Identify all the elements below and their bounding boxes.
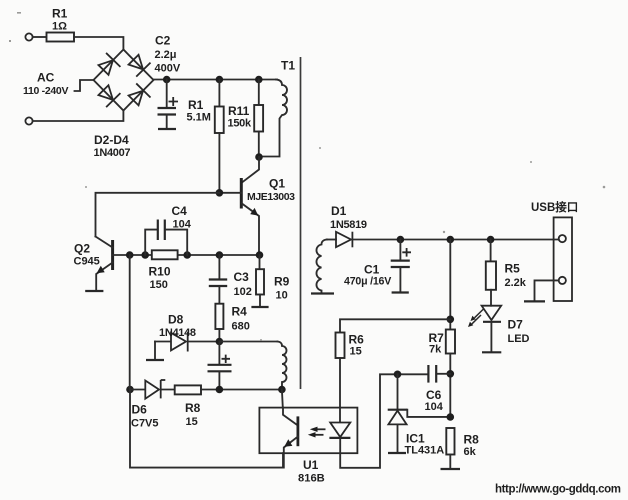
svg-text:LED: LED (508, 333, 530, 345)
wire (33, 36, 47, 38)
diode D6 C7V5 zener (130, 380, 175, 430)
terminal input top (25, 33, 32, 40)
svg-text:Q1: Q1 (269, 177, 285, 191)
node (216, 251, 224, 259)
svg-text:R9: R9 (274, 275, 290, 289)
svg-text:R1: R1 (188, 98, 204, 112)
capacitor C3 102 (209, 255, 252, 304)
svg-text:C3: C3 (234, 270, 250, 284)
svg-text:R6: R6 (349, 333, 365, 347)
svg-text:D8: D8 (168, 313, 184, 327)
svg-text:http://www.go-gddq.com: http://www.go-gddq.com (495, 484, 621, 496)
node (255, 76, 263, 84)
node (141, 251, 149, 259)
wire output rail (352, 239, 558, 241)
svg-text:104: 104 (173, 219, 192, 231)
capacitor C5 electrolytic (208, 342, 232, 390)
capacitor C2 2.2u 400V (155, 34, 181, 130)
transformer T1 secondary winding (316, 240, 327, 293)
svg-text:1N4148: 1N4148 (159, 327, 196, 339)
svg-text:104: 104 (425, 401, 444, 413)
node (216, 76, 224, 84)
node (278, 386, 286, 394)
svg-text:1N5819: 1N5819 (330, 219, 367, 231)
ground secondary winding (311, 292, 334, 294)
svg-text:D1: D1 (331, 204, 347, 218)
optocoupler internal LED (329, 374, 396, 468)
svg-text:USB接口: USB接口 (531, 200, 578, 214)
wire top rail primary (154, 79, 278, 81)
diode D1 1N5819 (327, 204, 367, 247)
svg-text:15: 15 (350, 346, 362, 358)
node (163, 76, 171, 84)
svg-text:2.2μ: 2.2μ (155, 49, 177, 61)
node (216, 338, 224, 346)
wire D6 row to winding node (219, 389, 282, 391)
node AC left stub (23, 71, 94, 98)
svg-text:R5: R5 (505, 262, 521, 276)
resistor R1 5.1M (187, 80, 224, 193)
svg-text:C6: C6 (426, 388, 442, 402)
transformer T1 feedback winding (278, 342, 287, 390)
node (394, 371, 402, 379)
svg-text:C1: C1 (364, 263, 380, 277)
svg-text:Q2: Q2 (74, 242, 90, 256)
transistor Q2 C945 (74, 237, 113, 291)
node (447, 413, 455, 421)
svg-text:R8: R8 (185, 401, 201, 415)
svg-text:R10: R10 (149, 265, 171, 279)
svg-text:1N4007: 1N4007 (94, 147, 131, 159)
ground USB (524, 300, 545, 302)
node (216, 386, 224, 394)
resistor R4 680 (215, 304, 249, 342)
ground D8 (146, 359, 164, 361)
wire row base Q2 (113, 254, 260, 256)
svg-text:400V: 400V (155, 63, 181, 75)
resistor R8 6k (441, 428, 480, 469)
svg-text:2.2k: 2.2k (505, 277, 527, 289)
svg-text:680: 680 (232, 321, 250, 333)
resistor R11 150k (228, 80, 264, 158)
svg-text:C945: C945 (74, 256, 100, 268)
node (216, 189, 224, 197)
diode D8 1N4148 (155, 313, 219, 360)
resistor R5 2.2k (486, 240, 527, 306)
svg-text:C4: C4 (172, 204, 188, 218)
svg-text:D6: D6 (132, 403, 148, 417)
svg-text:10: 10 (276, 290, 288, 302)
resistor R6 15 (336, 319, 451, 407)
svg-text:D2-D4: D2-D4 (94, 133, 129, 147)
svg-text:7k: 7k (429, 344, 442, 356)
transformer T1 primary winding (259, 59, 295, 157)
svg-text:TL431A: TL431A (405, 445, 445, 457)
terminal input bottom (25, 117, 32, 124)
wire (33, 111, 124, 121)
svg-text:R1: R1 (52, 7, 68, 21)
transistor Q1 MJE13003 (241, 157, 295, 255)
svg-text:150: 150 (150, 279, 168, 291)
node (447, 370, 455, 378)
node (397, 236, 405, 244)
capacitor C1 470u/16V (344, 240, 411, 293)
svg-text:110 -240V: 110 -240V (23, 85, 68, 97)
svg-text:816B: 816B (298, 473, 325, 485)
svg-text:C7V5: C7V5 (131, 418, 159, 430)
resistor R1 (1 ohm) (47, 7, 75, 42)
node (256, 251, 264, 259)
node (126, 386, 134, 394)
node (447, 236, 455, 244)
svg-text:MJE13003: MJE13003 (247, 191, 295, 203)
svg-text:R8: R8 (464, 433, 480, 447)
optocoupler arrows (308, 427, 326, 438)
resistor R7 7k (429, 240, 456, 418)
svg-text:R4: R4 (232, 305, 248, 319)
USB port connector (531, 200, 578, 301)
svg-text:U1: U1 (303, 458, 319, 472)
bridge rectifier D2-D4 1N4007 (94, 50, 154, 160)
node (183, 251, 191, 259)
svg-text:R11: R11 (228, 104, 250, 118)
resistor R10 150 (149, 250, 178, 291)
optocoupler U1 816B (259, 408, 357, 485)
svg-text:IC1: IC1 (406, 432, 425, 446)
capacitor C4 104 (145, 204, 192, 255)
node (447, 316, 455, 324)
wire emitter bottom loop (130, 390, 283, 468)
wire Q1 base (219, 192, 241, 194)
svg-text:T1: T1 (281, 59, 295, 73)
resistor R9 10 (251, 255, 289, 307)
svg-text:470μ /16V: 470μ /16V (344, 276, 391, 288)
capacitor C6 104 (398, 365, 451, 413)
svg-text:102: 102 (234, 286, 252, 298)
resistor R8 15 (175, 385, 220, 428)
wire Q2 collector to Q1 base (96, 193, 220, 237)
transformer core (300, 57, 302, 389)
node (126, 251, 134, 259)
scan specks (9, 12, 605, 341)
svg-text:15: 15 (186, 416, 198, 428)
svg-text:1Ω: 1Ω (52, 21, 67, 33)
wire D8 row to feedback winding (219, 341, 277, 343)
svg-text:D7: D7 (508, 318, 524, 332)
svg-text:C2: C2 (155, 34, 171, 48)
LED D7 (468, 306, 530, 353)
svg-text:6k: 6k (464, 446, 477, 458)
shunt regulator IC1 TL431A (388, 374, 451, 456)
wire (74, 37, 123, 49)
node (487, 236, 495, 244)
wire winding to optocoupler collector (281, 390, 284, 408)
wire left vertical (129, 255, 131, 390)
ground Q2 emitter (85, 290, 103, 292)
svg-text:150k: 150k (228, 118, 252, 130)
node (255, 153, 263, 161)
svg-text:5.1M: 5.1M (187, 112, 211, 124)
watermark url (495, 484, 621, 496)
svg-text:AC: AC (37, 71, 55, 85)
